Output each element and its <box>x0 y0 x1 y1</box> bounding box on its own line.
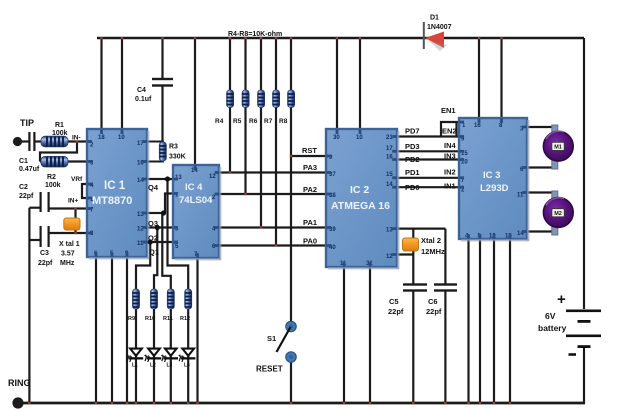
wire C3 left to vertical <box>29 239 40 241</box>
LED L2 <box>144 349 161 369</box>
junction dot Q2 <box>155 225 160 230</box>
svg-text:1N4007: 1N4007 <box>427 24 452 31</box>
svg-text:D1: D1 <box>430 15 439 22</box>
wire left column C2C3 to bus <box>28 208 30 403</box>
svg-text:IN+: IN+ <box>68 198 79 205</box>
wire TIP to C1 <box>21 140 29 142</box>
svg-text:Q1: Q1 <box>149 248 159 257</box>
svg-text:PD2: PD2 <box>405 155 420 164</box>
wire R11 LED3 to bus <box>170 309 172 403</box>
svg-text:R9: R9 <box>128 316 135 322</box>
wire RST line R8 to IC2 pin9 <box>291 155 326 157</box>
junction ticks on ground bus <box>28 402 511 404</box>
svg-text:IC 1: IC 1 <box>104 180 126 192</box>
resistor R8 <box>279 90 295 125</box>
wire R12 LED4 to bus <box>187 309 189 403</box>
wire R4 pullup to PA3 <box>229 38 231 173</box>
wire rail to IC1 pin18 <box>100 38 102 129</box>
wire PA1 line IC4 pin4 to IC2 <box>219 226 326 228</box>
svg-text:18: 18 <box>98 135 105 141</box>
junction dot Q3 <box>161 210 166 215</box>
svg-text:IN2: IN2 <box>444 168 456 177</box>
svg-text:PA2: PA2 <box>303 185 317 194</box>
wire PA3 line IC4 pin12 to IC2 <box>219 171 326 173</box>
svg-text:VRf: VRf <box>71 176 83 183</box>
svg-text:12: 12 <box>209 174 216 180</box>
pin stubs on IC edges <box>88 119 527 267</box>
wire R10 LED2 to bus <box>153 309 155 403</box>
svg-text:L293D: L293D <box>480 183 509 194</box>
svg-text:22pf: 22pf <box>426 307 442 316</box>
wire PD3 line to IC3 pin15 IN4 <box>397 150 459 152</box>
svg-text:RST: RST <box>302 146 317 155</box>
svg-text:M2: M2 <box>554 211 562 217</box>
svg-text:Q4: Q4 <box>148 183 159 192</box>
wire R5 pullup to PA2 <box>244 38 246 194</box>
wire xtal1 vertical <box>74 209 76 234</box>
svg-text:C4: C4 <box>137 87 146 94</box>
svg-text:L1: L1 <box>132 363 138 369</box>
wire S1 lower dot to bus <box>290 359 292 403</box>
svg-text:10: 10 <box>118 135 125 141</box>
svg-text:R5: R5 <box>233 118 242 125</box>
wire IC1 Q3 pin13 stub <box>147 212 162 214</box>
svg-text:PD7: PD7 <box>405 127 420 136</box>
LED L4 <box>178 349 195 369</box>
svg-text:0.47uf: 0.47uf <box>19 166 40 173</box>
wire C6 column to bus <box>444 229 446 403</box>
wire C2 left to vertical <box>29 207 40 209</box>
svg-text:RESET: RESET <box>256 365 283 374</box>
svg-text:L4: L4 <box>184 363 190 369</box>
wire rail to C4 <box>161 38 163 78</box>
svg-text:100k: 100k <box>45 182 61 189</box>
resistor R1 100k <box>41 122 68 147</box>
resistor R4 <box>215 90 234 125</box>
resistor R6 <box>249 90 265 125</box>
wire IC3 pin12 to bus <box>493 239 495 403</box>
svg-text:PD0: PD0 <box>405 183 420 192</box>
wire IC3 pin5 to bus <box>479 239 481 403</box>
wire PD7 line to IC3 pin9 EN2 <box>397 135 459 137</box>
wire IC2 pin13 to xtal2 and C6 <box>397 228 445 230</box>
svg-text:6V: 6V <box>545 311 556 321</box>
svg-text:30: 30 <box>333 135 340 141</box>
wire battery - to ground bus <box>583 347 585 403</box>
svg-text:X tal 1: X tal 1 <box>59 241 80 248</box>
resistor R12 <box>180 289 192 322</box>
svg-text:MT8870: MT8870 <box>92 195 132 207</box>
junction dot Q4 <box>165 176 170 181</box>
svg-text:R4-R8=10K-ohm: R4-R8=10K-ohm <box>228 31 282 38</box>
resistor R9 <box>128 289 140 322</box>
wire IC3 pin3 to motor M1 <box>527 126 553 128</box>
wire IC1 pin5 to bus <box>111 257 113 403</box>
svg-text:22pf: 22pf <box>19 193 34 200</box>
svg-text:PA1: PA1 <box>303 218 317 227</box>
svg-text:+: + <box>557 291 566 308</box>
capacitor C4 0.1uf <box>135 78 173 103</box>
svg-text:EN2: EN2 <box>442 127 457 136</box>
svg-text:C6: C6 <box>428 297 438 306</box>
svg-text:C1: C1 <box>19 158 28 165</box>
crystal Xtal2 12MHz <box>403 236 446 256</box>
svg-text:ATMEGA 16: ATMEGA 16 <box>331 200 390 212</box>
wire top supply rail <box>97 37 584 39</box>
svg-text:R8: R8 <box>279 118 288 125</box>
wire IC3 pin14 to motor M2 <box>527 230 553 232</box>
IC4 74LS04 <box>173 165 222 261</box>
crystal Xtal1 3.57MHz <box>59 218 80 267</box>
wire PA2 line IC4 pin2 to IC2 <box>219 193 326 195</box>
IC2 ATMEGA16 <box>326 129 400 270</box>
wire R6 pullup to PA1 <box>260 38 262 228</box>
LED L1 <box>126 349 143 369</box>
wire IC1 pin6 to bus <box>95 257 97 403</box>
svg-text:PA0: PA0 <box>303 237 317 246</box>
op-amp style IC body: IC1 MT8870 <box>87 129 150 260</box>
wire Q4 branch to R12 <box>168 179 189 292</box>
svg-text:RING: RING <box>8 378 31 388</box>
wire IC4 pin7 to bus <box>196 258 198 403</box>
wire rail to IC1 pin10 <box>121 38 123 129</box>
motor M2 <box>543 191 573 235</box>
svg-text:IC 2: IC 2 <box>350 184 369 196</box>
capacitor C3 22pf <box>38 226 53 267</box>
wire R9 LED1 to bus <box>135 309 137 403</box>
svg-text:C2: C2 <box>19 184 28 191</box>
wire rail to IC2 pin10 <box>359 38 361 129</box>
svg-text:330K: 330K <box>169 154 186 161</box>
wire PD0 line to IC3 pin2 IN1 <box>397 186 459 188</box>
wire VRef bracket IC1 pin4 to pin1 <box>82 184 87 198</box>
svg-text:R6: R6 <box>249 118 258 125</box>
wire R2 to IC1 pin3 <box>40 160 87 162</box>
wire xtal2 C5 column to bus <box>412 229 414 403</box>
resistor R11 <box>163 289 174 322</box>
wire C3 to IC1 pin8 <box>49 232 88 234</box>
wire Q1 branch to R9 <box>136 242 150 292</box>
resistor R7 <box>264 90 280 125</box>
wire Q2 branch to R10 <box>154 228 157 293</box>
wire IC3 pin6 to motor M1 <box>527 166 553 168</box>
wire IC2 pin11 gnd to bus <box>343 267 345 403</box>
svg-text:R1: R1 <box>55 122 64 129</box>
svg-text:10: 10 <box>356 135 363 141</box>
svg-text:L2: L2 <box>150 363 156 369</box>
svg-text:Xtal 2: Xtal 2 <box>421 236 441 245</box>
resistor R2 100k <box>41 156 68 189</box>
svg-text:TIP: TIP <box>20 118 34 128</box>
wire C2 to IC1 pin7 <box>49 207 88 209</box>
svg-text:M1: M1 <box>554 145 562 151</box>
resistor R10 <box>145 289 158 322</box>
svg-text:EN1: EN1 <box>441 106 456 115</box>
capacitor C6 22pf <box>426 283 457 316</box>
resistor R5 <box>233 90 249 125</box>
svg-text:PA3: PA3 <box>303 163 317 172</box>
svg-text:PD3: PD3 <box>405 142 420 151</box>
svg-text:R3: R3 <box>169 144 178 151</box>
svg-text:R7: R7 <box>264 118 273 125</box>
wire rail to IC4 pin14 <box>194 38 196 165</box>
wire IC1 Q1 pin11 to IC4 pin5 <box>147 241 173 243</box>
svg-text:C5: C5 <box>389 297 399 306</box>
node RING terminal <box>8 378 31 409</box>
wire IC3 pin11 to motor M2 <box>527 191 553 193</box>
wire R7 pullup to PA0 <box>275 38 277 246</box>
svg-text:L3: L3 <box>167 363 173 369</box>
junction ticks mid nets <box>74 140 292 246</box>
node TIP terminal <box>13 118 34 146</box>
svg-text:R4: R4 <box>215 118 224 125</box>
wire IC1 Q4 pin14 to IC4 pin13 <box>147 178 173 180</box>
svg-text:100k: 100k <box>52 130 68 137</box>
svg-text:IC 3: IC 3 <box>483 170 500 181</box>
motor M1 <box>543 125 573 169</box>
wire PA0 line IC4 pin6 to IC2 <box>219 244 326 246</box>
svg-text:IC 4: IC 4 <box>185 182 203 193</box>
wire right supply rail to battery + <box>583 38 585 309</box>
wire R8 pullup to RST and S1 <box>290 38 292 322</box>
svg-text:22pf: 22pf <box>388 307 404 316</box>
wire R3 bracket IC1 pin17 to pin16 <box>147 142 163 162</box>
LED L3 <box>161 349 178 369</box>
wire IC2 pin31 gnd to bus <box>369 267 371 403</box>
svg-text:0.1uf: 0.1uf <box>135 96 152 103</box>
wire bottom ground bus <box>18 402 585 405</box>
capacitor C5 22pf <box>388 283 427 316</box>
diode D1 1N4007 <box>423 15 452 52</box>
switch S1 RESET <box>256 321 296 373</box>
svg-text:16: 16 <box>474 123 481 129</box>
junction dot Q1 <box>148 239 153 244</box>
wire IC3 pin4 to bus <box>467 239 469 403</box>
wire IC2 pin12 to xtal2 <box>397 253 413 255</box>
wire rail to IC2 pin30 <box>336 38 338 129</box>
svg-text:S1: S1 <box>267 334 276 343</box>
wire rail to IC3 pin8 <box>500 38 502 118</box>
wire R1 output feedback loop to R2 <box>40 142 77 162</box>
svg-text:IN4: IN4 <box>444 141 457 150</box>
IC3 L293D <box>459 118 530 242</box>
wire IC1 pin9 to bus <box>126 257 128 403</box>
svg-text:3.57: 3.57 <box>61 251 75 258</box>
resistor R3 330K <box>159 142 185 161</box>
svg-text:C3: C3 <box>40 250 49 257</box>
svg-text:22pf: 22pf <box>38 260 53 267</box>
wire Q3 to IC4 pin1 <box>165 194 173 214</box>
svg-text:IN3: IN3 <box>444 152 456 161</box>
wire PD2 line to IC3 pin10 IN3 <box>397 158 459 160</box>
capacitor C2 22pf <box>19 184 50 212</box>
wire C1 to R1 to IC1 pin2 <box>35 140 88 142</box>
svg-text:R10: R10 <box>145 316 155 322</box>
wire rail to IC3 pin16 <box>478 38 480 118</box>
svg-text:R2: R2 <box>47 174 56 181</box>
svg-text:MHz: MHz <box>60 260 75 267</box>
svg-text:battery: battery <box>538 323 567 333</box>
svg-text:12MHz: 12MHz <box>421 247 445 256</box>
battery 6V <box>538 291 601 356</box>
svg-text:R12: R12 <box>180 316 190 322</box>
svg-text:IN1: IN1 <box>444 182 456 191</box>
wire EN1 IC3 pin1 bracket <box>441 122 459 137</box>
wire PD1 line to IC3 pin7 IN2 <box>397 177 459 179</box>
wire IC3 pin13 to bus <box>509 239 511 403</box>
wire IC1 Q2 pin12 to IC4 pin3 <box>147 226 173 228</box>
wire Q3 branch to R11 <box>162 213 171 292</box>
junction ticks on top rail <box>100 37 502 39</box>
svg-text:R11: R11 <box>163 316 173 322</box>
capacitor C1 0.47uf <box>19 132 40 173</box>
wire C4 to R3 bracket <box>161 86 163 142</box>
wire EN2 label box right edge <box>455 122 457 137</box>
svg-text:74LS04: 74LS04 <box>179 195 213 206</box>
svg-text:PD1: PD1 <box>405 168 420 177</box>
